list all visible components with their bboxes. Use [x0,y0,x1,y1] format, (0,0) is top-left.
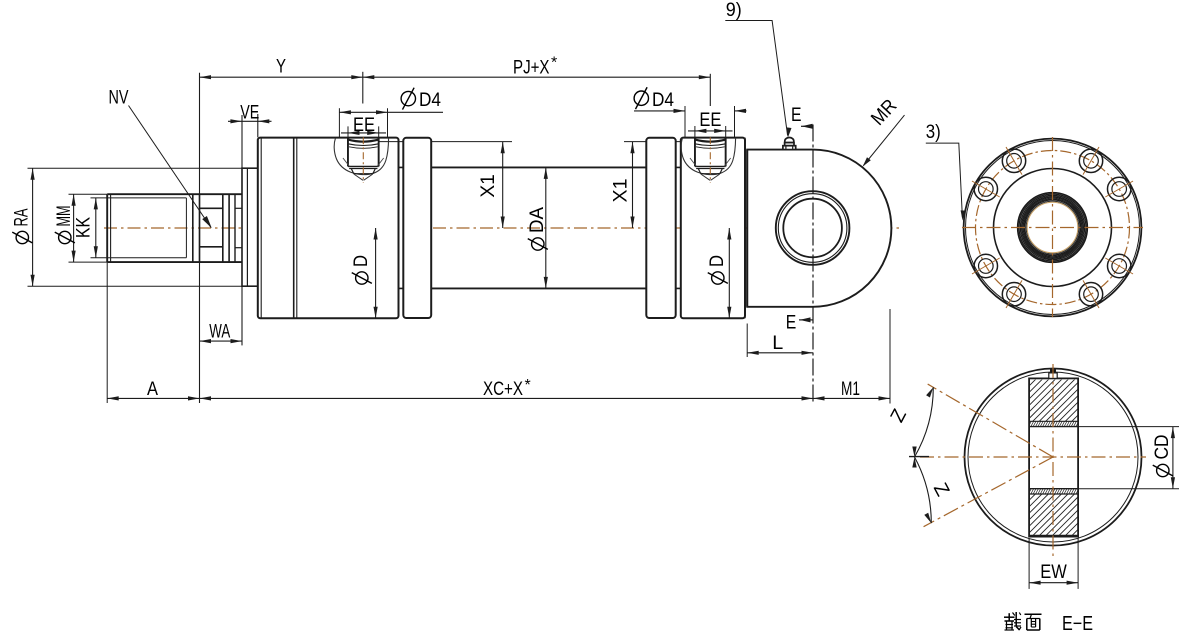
svg-text:D: D [706,255,728,267]
svg-text:E−E: E−E [1062,613,1093,635]
svg-text:D4: D4 [419,89,441,111]
svg-text:L: L [772,332,783,354]
svg-text:Z: Z [886,405,911,426]
svg-text:A: A [147,378,158,400]
svg-text:VE: VE [240,102,259,124]
svg-text:DA: DA [526,207,548,233]
svg-text:*: * [551,55,557,72]
svg-text:EE: EE [353,114,375,136]
svg-text:X1: X1 [477,174,499,198]
svg-text:WA: WA [209,321,230,343]
svg-text:M1: M1 [841,378,860,400]
svg-text:E: E [786,312,797,334]
svg-text:X1: X1 [610,179,632,203]
svg-text:NV: NV [109,87,129,109]
svg-text:D4: D4 [652,89,674,111]
svg-text:*: * [525,377,531,394]
svg-text:XC+X: XC+X [483,378,523,400]
svg-text:9): 9) [726,0,742,21]
svg-text:PJ+X: PJ+X [513,57,550,79]
svg-text:D: D [350,255,372,267]
svg-text:3): 3) [926,121,941,143]
svg-text:Y: Y [276,56,286,78]
svg-text:RA: RA [11,209,33,227]
svg-text:EW: EW [1040,561,1067,583]
svg-text:EE: EE [699,109,721,131]
svg-text:Z: Z [929,479,954,500]
svg-text:KK: KK [73,217,95,238]
svg-text:E: E [791,104,802,126]
svg-text:CD: CD [1151,435,1173,460]
